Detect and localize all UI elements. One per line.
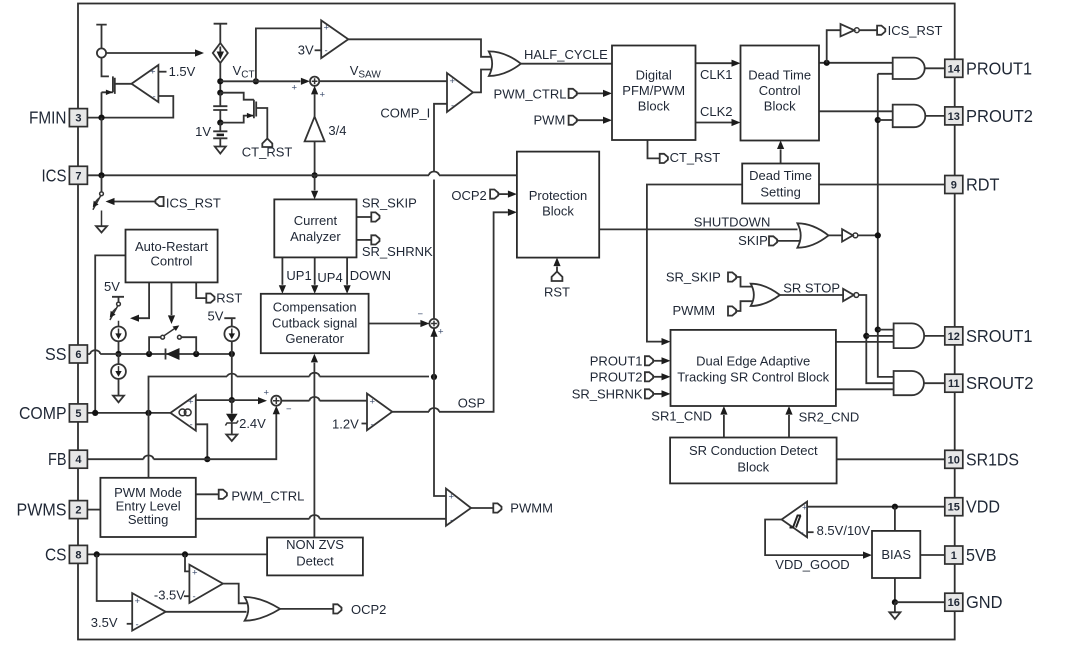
svg-text:+: +: [292, 83, 298, 94]
op-amp A1 (1.5V clamp amp): [132, 65, 159, 102]
svg-text:SR1DS: SR1DS: [966, 449, 1019, 469]
ground below zener: [226, 435, 237, 442]
svg-text:GND: GND: [966, 592, 1003, 612]
svg-text:1.5V: 1.5V: [169, 64, 196, 79]
svg-text:15: 15: [948, 502, 960, 514]
svg-text:+: +: [449, 492, 455, 503]
svg-text:Dual Edge Adaptive: Dual Edge Adaptive: [696, 354, 810, 369]
wire CS pin to NON ZVS detect: [87, 553, 267, 555]
pin 16 GND: [945, 593, 963, 611]
svg-text:5VB: 5VB: [966, 545, 997, 565]
svg-text:3.5V: 3.5V: [91, 615, 118, 630]
supply rail T above diamond: [214, 24, 228, 43]
svg-text:NON ZVS: NON ZVS: [286, 537, 344, 552]
svg-text:+: +: [320, 90, 326, 101]
ground below I3: [113, 396, 124, 403]
svg-text:Block: Block: [764, 99, 796, 114]
wire dual edge block out1 to G6: [836, 341, 894, 343]
svg-text:−: −: [286, 404, 292, 415]
svg-text:Protection: Protection: [529, 188, 588, 203]
svg-text:Block: Block: [638, 99, 670, 114]
svg-text:SKIP: SKIP: [738, 233, 768, 248]
wire UP1 arrow: [281, 257, 283, 284]
node VDD: [892, 504, 898, 510]
svg-text:VDD_GOOD: VDD_GOOD: [775, 557, 849, 572]
svg-text:PWM_CTRL: PWM_CTRL: [494, 86, 567, 101]
svg-text:PWM: PWM: [534, 113, 566, 128]
wire 3V label dash to minus input: [315, 49, 322, 51]
wire CT_RST stub from Digital block: [648, 140, 660, 158]
flag OCP2 into Protection: [490, 190, 498, 199]
wire COMP pin to gm1: [87, 412, 170, 414]
wire U8 plus to VDD rail: [807, 506, 945, 508]
wire G1 output HALF_CYCLE to Digital block: [521, 63, 612, 65]
node cap bottom: [217, 120, 223, 126]
svg-text:Control: Control: [759, 83, 801, 98]
wire PWM mode block to PWMM comparator minus: [196, 518, 446, 520]
pin 6 SS: [69, 345, 87, 363]
wire I4 through SS to error amp node: [231, 341, 233, 400]
wire CS mid down to -3.5V comparator: [185, 554, 189, 571]
node COMP-autorestart: [92, 410, 98, 416]
svg-text:Analyzer: Analyzer: [290, 229, 341, 244]
zener Z1 2.4V: [231, 400, 233, 413]
bell RST under Protection: [552, 272, 563, 282]
svg-text:-: -: [371, 420, 374, 431]
ground below 1V battery: [215, 147, 226, 154]
wire -3.5V dash to minus: [184, 595, 190, 597]
pin 7 ICS: [69, 166, 87, 184]
svg-text:PROUT1: PROUT1: [590, 353, 643, 368]
comparator U3 (VSAW vs COMP_I): [447, 73, 473, 112]
svg-text:-: -: [190, 420, 193, 431]
inverter U6: [829, 229, 853, 241]
node inverter tap: [824, 60, 830, 66]
svg-text:8: 8: [75, 549, 81, 561]
svg-text:SS: SS: [45, 344, 67, 364]
wire node down into Current Analyzer: [314, 175, 316, 190]
ground below SW1: [96, 226, 107, 232]
svg-text:UP1: UP1: [286, 268, 311, 283]
svg-text:1.2V: 1.2V: [332, 417, 359, 432]
wire SR1_CND arrow: [723, 415, 725, 438]
comparator U5 (1.2V OSP): [367, 394, 392, 431]
switch SW1 (ICS reset): [101, 175, 103, 192]
wire error amp plus rail to summing node S2: [196, 399, 258, 401]
block NON ZVS Detect: [267, 538, 363, 576]
node ICS switch tap: [98, 172, 104, 178]
svg-text:3/4: 3/4: [328, 123, 346, 138]
pin 12 SROUT1: [945, 327, 963, 345]
node FMIN junction: [98, 115, 104, 121]
wire circle down to mosfet drain: [102, 58, 109, 77]
flag PROUT1 into dual edge: [645, 356, 653, 365]
svg-text:SR_SKIP: SR_SKIP: [362, 196, 417, 211]
svg-text:+: +: [802, 503, 808, 514]
flag ICS_RST (top): [877, 26, 885, 35]
pin 4 FB: [69, 450, 87, 468]
svg-text:13: 13: [948, 111, 960, 123]
pin 13 PROUT2: [945, 107, 963, 125]
current mirror circle: [97, 48, 106, 57]
svg-text:CS: CS: [45, 544, 67, 564]
comparator U2 (3V): [321, 20, 348, 58]
svg-text:Tracking SR Control Block: Tracking SR Control Block: [677, 370, 829, 385]
wire tap up to inverter U4: [827, 30, 841, 63]
svg-text:PFM/PWM: PFM/PWM: [622, 83, 685, 98]
svg-text:FB: FB: [48, 449, 67, 469]
svg-text:OCP2: OCP2: [451, 188, 486, 203]
wire S1 to VSAW comparator plus: [319, 80, 447, 82]
svg-text:UP4: UP4: [317, 270, 342, 285]
wire G8 output to OCP2 flag: [280, 608, 333, 610]
wire auto-restart stub2 to diode switch: [171, 282, 173, 315]
inverter U7: [843, 289, 854, 301]
svg-text:11: 11: [948, 378, 960, 390]
svg-text:3V: 3V: [298, 43, 314, 58]
svg-text:+: +: [264, 388, 270, 399]
svg-text:+: +: [150, 67, 156, 78]
summing node S1: [310, 77, 319, 86]
wire 3.5V dash to minus: [127, 623, 133, 625]
flag SR_SHRNK into dual edge: [645, 389, 653, 398]
current source I2 (SS up): [111, 327, 126, 342]
wire FMIN node down to ICS line: [101, 118, 103, 176]
node AND2 lower input: [875, 117, 881, 123]
svg-text:SR1_CND: SR1_CND: [651, 409, 712, 424]
wire SS pin to diode network: [87, 353, 231, 355]
svg-text:16: 16: [948, 597, 960, 609]
switch SW2 (SS charge enable): [117, 302, 121, 306]
svg-text:-3.5V: -3.5V: [154, 588, 185, 603]
wire UP4 arrow: [314, 257, 316, 284]
svg-text:7: 7: [75, 170, 81, 182]
svg-text:PROUT2: PROUT2: [966, 106, 1033, 126]
wire diamond to VCT node: [219, 63, 221, 93]
flag SR_SKIP into G5: [728, 272, 736, 281]
block Auto-Restart Control: [126, 230, 218, 283]
wire auto-restart left to COMP node: [95, 255, 125, 413]
wire OCP2 flag to Protection: [497, 193, 508, 195]
svg-text:Detect: Detect: [296, 554, 334, 569]
wire G5 output SR STOP to inverter U7: [780, 294, 843, 296]
wire dual edge block out2 to G7: [836, 388, 894, 390]
wire S2 output to 1.2V comparator: [281, 400, 367, 402]
svg-text:FMIN: FMIN: [29, 108, 67, 128]
block Dead Time Control: [741, 46, 820, 141]
wire 3/4 down to ICS line node: [314, 141, 316, 175]
wire SKIP to G4: [776, 240, 799, 242]
or-gate G1 (HALF_CYCLE): [489, 51, 521, 76]
node FB: [204, 456, 210, 462]
summing node S3 (compensation cutback): [429, 319, 438, 328]
current source I3 (SS discharge): [118, 354, 120, 364]
pin 8 CS: [69, 545, 87, 563]
amp gm1 (error amp): [170, 395, 195, 431]
svg-text:CLK1: CLK1: [700, 67, 733, 82]
svg-text:PWMS: PWMS: [17, 500, 67, 520]
amp 3/4 (buffer triangle): [305, 117, 325, 142]
wire CS left down to 3.5V comparator: [97, 554, 133, 601]
wire 1.2V dash to minus: [362, 423, 368, 425]
svg-text:6: 6: [75, 349, 81, 361]
wire I2 to SS node: [118, 341, 120, 354]
block Dual Edge Adaptive Tracking SR Control: [671, 330, 836, 406]
wire U9 output to PWMM flag: [471, 507, 493, 509]
and-gate G7 (SROUT2): [894, 371, 924, 395]
battery 1V: [213, 123, 227, 147]
pin 15 VDD: [945, 498, 963, 516]
svg-text:2: 2: [75, 505, 81, 517]
svg-text:+: +: [188, 397, 194, 408]
node error amp plus: [229, 397, 235, 403]
svg-text:SROUT2: SROUT2: [966, 373, 1034, 393]
wire GND node to pin 16: [895, 601, 945, 603]
supply rail T above current mirror circle: [96, 25, 106, 49]
flag SR_SKIP out: [371, 212, 379, 221]
flag PWM input: [569, 116, 577, 125]
and-gate G3 (PROUT2): [893, 105, 926, 128]
svg-text:PWMM: PWMM: [510, 501, 553, 516]
svg-text:PWMM: PWMM: [672, 303, 715, 318]
transistor M1 (FMIN mosfet): [102, 76, 115, 117]
wire PWM_CTRL out stub: [196, 493, 219, 495]
and-gate G2 (PROUT1): [893, 58, 925, 79]
svg-text:HALF_CYCLE: HALF_CYCLE: [524, 47, 608, 62]
node ICS / 3-4 junction: [312, 172, 318, 178]
svg-text:Setting: Setting: [128, 512, 168, 527]
svg-text:RDT: RDT: [966, 175, 1000, 195]
svg-text:ICS_RST: ICS_RST: [888, 23, 943, 38]
flag PWMM into G5: [728, 306, 736, 315]
wire ICS pin line to Protection: [87, 174, 517, 176]
svg-text:SR_SHRNK: SR_SHRNK: [362, 244, 433, 259]
svg-text:OSP: OSP: [458, 396, 485, 411]
flag PWM_CTRL out: [219, 490, 227, 499]
wire PWMS pin to PWM mode block: [87, 509, 100, 511]
current source I1 (diamond VCT charger): [213, 43, 228, 63]
node CS left: [94, 551, 100, 557]
wire VCT up to 3V comparator plus: [256, 28, 321, 81]
svg-text:-: -: [325, 46, 328, 57]
wire U3 output to OR gate G1 bottom input: [473, 70, 491, 93]
node GND: [892, 599, 898, 605]
svg-text:8.5V/10V: 8.5V/10V: [817, 523, 871, 538]
wire U6 output to shutdown-bar rail: [858, 234, 878, 236]
block SR Conduction Detect: [670, 438, 837, 484]
or-gate G5 (SR STOP): [751, 284, 780, 306]
diode D1: [166, 348, 180, 360]
wire DTC out2 to AND2: [819, 110, 893, 112]
wire M2 gate to CT_RST bell: [256, 108, 267, 139]
svg-text:Setting: Setting: [760, 185, 800, 200]
svg-text:14: 14: [948, 63, 961, 75]
svg-text:+: +: [135, 596, 141, 607]
wire node to AND2 input: [878, 119, 893, 121]
svg-text:+: +: [370, 397, 376, 408]
svg-text:Dead Time: Dead Time: [748, 68, 811, 83]
svg-text:3: 3: [75, 113, 81, 125]
svg-text:+: +: [324, 23, 330, 34]
svg-text:BIAS: BIAS: [881, 547, 911, 562]
svg-text:10: 10: [948, 454, 960, 466]
wire ICS_RST control arrow: [115, 201, 156, 203]
wire U4 to ICS_RST flag: [859, 29, 877, 31]
wire auto-restart stub1 to 5V switch: [139, 282, 149, 318]
wire CLK1: [696, 62, 732, 64]
capacitor C1: [213, 93, 227, 123]
svg-text:2.4V: 2.4V: [239, 416, 266, 431]
block Dead Time Setting: [742, 164, 819, 204]
wire compensation generator output into S3: [369, 323, 421, 325]
svg-text:VDD: VDD: [966, 497, 1000, 517]
wire A1 output to M1 gate: [115, 83, 132, 85]
block BIAS: [872, 531, 920, 578]
comparator U11 (3.5V): [132, 593, 166, 631]
chip border: [78, 4, 955, 640]
wire DTS up into DTC: [780, 149, 782, 163]
flag OCP2 out: [333, 604, 341, 613]
svg-text:Cutback signal: Cutback signal: [272, 315, 357, 330]
wire G3 output to pin PROUT2: [925, 115, 945, 117]
svg-text:Dead Time: Dead Time: [749, 168, 812, 183]
wire U5 output OSP to Protection: [392, 212, 508, 411]
pin 1 5VB: [945, 546, 963, 564]
pin 9 RDT: [945, 176, 963, 194]
wire U3 minus stub to COMP_I rail: [434, 104, 447, 171]
comparator U10 (-3.5V): [189, 565, 223, 603]
wire circle to VCT current source diamond: [106, 52, 195, 54]
svg-text:Block: Block: [542, 204, 574, 219]
svg-text:ICS: ICS: [42, 165, 67, 185]
transistor M2 (CT discharge): [220, 93, 256, 123]
wire BIAS to pin 5VB: [920, 554, 945, 556]
wire SR conduction detect to pin SR1DS: [837, 458, 945, 460]
svg-text:+: +: [438, 327, 444, 338]
wire gm1 minus to FB node: [196, 424, 208, 459]
svg-text:CT_RST: CT_RST: [242, 144, 293, 159]
svg-text:1: 1: [951, 550, 957, 562]
svg-text:1V: 1V: [195, 124, 211, 139]
wire PWM_CTRL to Digital block: [576, 92, 603, 94]
switch SW3 (diode bypass): [149, 337, 196, 354]
svg-text:Auto-Restart: Auto-Restart: [135, 239, 208, 254]
svg-text:+: +: [192, 568, 198, 579]
svg-text:CT_RST: CT_RST: [670, 150, 721, 165]
svg-text:-: -: [136, 620, 139, 631]
node CS mid: [182, 551, 188, 557]
wire DOWN arrow: [346, 257, 348, 284]
pin 10 SR1DS: [945, 450, 963, 468]
svg-text:Digital: Digital: [636, 68, 672, 83]
inverter U4 (ICS_RST): [841, 24, 855, 36]
wire DTC out1 to AND1: [819, 62, 893, 64]
wire node to AND G6 mid input: [866, 335, 893, 337]
COMP_I rail: sum S3 and down to PWMM comparator: [433, 180, 435, 491]
wire BIAS bottom to GND: [894, 578, 896, 602]
node srstop rail SROUT1: [863, 333, 869, 339]
svg-text:-: -: [450, 515, 453, 526]
node SS: [115, 351, 121, 357]
comparator U8 (VDD monitor 8.5V/10V): [782, 502, 808, 538]
node SS right: [229, 351, 235, 357]
node shutdown-bar: [875, 232, 881, 238]
wire SR_SHRNK stub: [357, 239, 372, 241]
block PWM Mode Entry Level Setting: [100, 478, 195, 537]
svg-text:9: 9: [951, 180, 957, 192]
wire G2 output to pin PROUT1: [925, 67, 945, 69]
svg-text:−: −: [418, 309, 424, 320]
block Protection: [517, 152, 599, 258]
node diode left: [146, 351, 152, 357]
shutdown-bar rail (vertical x878): [878, 74, 894, 377]
svg-text:5V: 5V: [104, 279, 120, 294]
svg-text:SROUT1: SROUT1: [966, 326, 1033, 346]
wire U2 output to OR gate G1 top input: [348, 39, 491, 57]
node VCT: [217, 78, 223, 84]
wire PWM to Digital block: [576, 119, 603, 121]
pin 5 COMP: [69, 404, 87, 422]
current source I4 (5V pullup): [224, 327, 239, 342]
flag PWM_CTRL input: [569, 89, 577, 98]
or-gate G4 (shutdown+skip): [797, 223, 828, 247]
pin 3 FMIN: [69, 109, 87, 127]
node COMP-pwmmode: [145, 410, 151, 416]
svg-text:Generator: Generator: [285, 331, 344, 346]
node diode right: [193, 351, 199, 357]
flag PROUT2 into dual edge: [645, 372, 653, 381]
wire SR_SKIP stub from Current Analyzer: [357, 216, 372, 218]
wire RST bell up into Protection: [556, 267, 558, 273]
or-gate G8 (OCP2): [245, 597, 281, 621]
wire node to AND G6 top input: [878, 329, 894, 331]
svg-text:OCP2: OCP2: [351, 602, 386, 617]
svg-text:RST: RST: [544, 285, 570, 300]
wire U8 output VDD_GOOD to BIAS: [765, 520, 863, 556]
wire A1 plus input stub to 1.5V: [158, 71, 166, 73]
wire NON ZVS detect up to compensation generator: [313, 363, 315, 538]
svg-text:ICS_RST: ICS_RST: [166, 196, 221, 211]
svg-text:SR Conduction Detect: SR Conduction Detect: [689, 443, 818, 458]
svg-text:DOWN: DOWN: [350, 268, 391, 283]
flag SR_SHRNK out: [371, 235, 379, 244]
flag RST: [206, 294, 214, 303]
wire CLK2: [696, 122, 732, 124]
flag PWMM out: [493, 503, 501, 512]
input bell CT_RST: [262, 139, 272, 148]
supply 5V T (SS right): [224, 318, 235, 326]
pin 14 PROUT1: [945, 59, 963, 77]
wire auto-restart stub3 to RST flag: [196, 282, 206, 298]
svg-text:SR2_CND: SR2_CND: [799, 410, 860, 425]
flag ICS_RST (left): [155, 197, 163, 206]
block Compensation Cutback signal Generator: [261, 294, 369, 353]
svg-text:-: -: [193, 592, 196, 603]
svg-text:+: +: [450, 76, 456, 87]
summing node S2: [271, 396, 281, 406]
svg-text:PWM_CTRL: PWM_CTRL: [231, 488, 304, 503]
block Digital PFM/PWM: [612, 46, 696, 141]
ground below BIAS: [889, 602, 900, 619]
wire COMP node up to COMP_I feed line: [149, 377, 430, 478]
pin 11 SROUT2: [945, 374, 963, 392]
flag SKIP: [769, 236, 777, 245]
node COMP_I junction: [431, 374, 437, 380]
svg-text:RST: RST: [216, 291, 242, 306]
svg-text:CLK2: CLK2: [700, 104, 733, 119]
wire A1 feedback to FMIN pin node: [87, 96, 173, 118]
wire G7 output to pin SROUT2: [924, 382, 945, 384]
